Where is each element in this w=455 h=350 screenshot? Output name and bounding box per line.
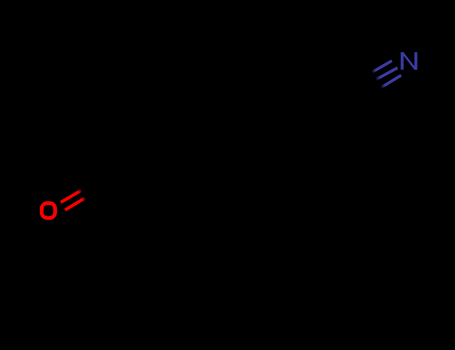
C=O double bond, upper line (oxygen half) (61, 190, 82, 202)
C#N triple bond, bottom line (nitrogen half) (382, 75, 402, 87)
C#N triple bond, middle line (nitrogen half) (376, 68, 397, 80)
atom label O (ketone oxygen) (42, 203, 55, 218)
C#N triple bond, top line (nitrogen half) (372, 61, 392, 72)
atom label N (nitrile nitrogen) (401, 52, 418, 69)
C=O double bond, lower line (oxygen half) (65, 198, 85, 210)
